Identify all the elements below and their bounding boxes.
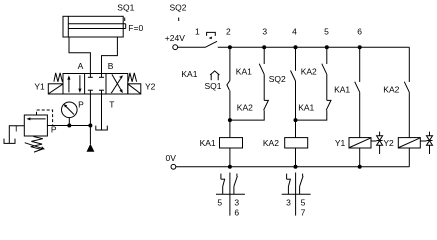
wire branch 2 upper <box>229 47 231 80</box>
contact table KA1 make glyph <box>234 174 238 195</box>
svg-text:6: 6 <box>357 27 362 37</box>
valve left position arrows <box>67 75 81 93</box>
wire P manifold <box>47 125 90 127</box>
svg-text:3: 3 <box>234 198 239 208</box>
relay coil KA1 <box>220 138 243 148</box>
svg-text:Y2: Y2 <box>383 138 394 148</box>
pressure relief valve body <box>24 115 47 136</box>
contact table KA1 bar <box>216 193 245 195</box>
svg-text:A: A <box>78 61 84 71</box>
svg-text:3: 3 <box>262 27 267 37</box>
svg-text:KA2: KA2 <box>237 103 253 113</box>
switch S1 blade (latching) <box>206 32 218 47</box>
svg-text:KA2: KA2 <box>263 138 279 148</box>
compressed air source <box>87 144 95 152</box>
wire branch 4 upper <box>295 47 297 71</box>
suppressor Z1 <box>371 132 383 154</box>
relay coil KA2 <box>285 138 308 148</box>
svg-text:KA1: KA1 <box>334 85 350 95</box>
svg-text:B: B <box>108 61 114 71</box>
wire branch 3 upper <box>263 47 265 64</box>
contact table KA2 make glyph <box>300 174 304 195</box>
wire relief valve to tank <box>9 126 24 144</box>
wire +24V rail left <box>178 46 206 48</box>
wire branch 6 upper <box>359 47 361 82</box>
svg-text:F=0: F=0 <box>128 23 143 33</box>
valve right return spring <box>128 73 137 82</box>
node 0V branch 2 <box>228 165 232 169</box>
svg-text:Y2: Y2 <box>145 81 156 91</box>
node branch2/branch3 join <box>228 118 232 122</box>
wire branch 5 middle <box>326 74 328 100</box>
wire 0V rail <box>176 166 409 168</box>
svg-text:T: T <box>109 99 114 109</box>
node P junction <box>88 124 92 128</box>
node branch 4 <box>294 45 298 49</box>
svg-text:5: 5 <box>324 27 329 37</box>
solenoid Y1 coil box <box>48 84 63 94</box>
svg-text:3: 3 <box>286 198 291 208</box>
node branch 6 <box>358 45 362 49</box>
svg-text:1: 1 <box>195 27 200 37</box>
cylinder piston <box>67 16 69 37</box>
wire branch 7 upper <box>408 47 410 82</box>
contact KA1 (make, branch 6) <box>355 82 360 93</box>
contact table KA1 centre line <box>229 173 231 216</box>
wire cylinder left port to valve A <box>69 37 90 74</box>
svg-text:KA1: KA1 <box>200 138 216 148</box>
contact SQ1 (make) <box>227 81 230 91</box>
wire cylinder right port to valve B <box>102 37 118 74</box>
wire branch 3 middle <box>263 74 265 100</box>
node gauge junction <box>67 124 71 128</box>
relief valve pilot line (dashed) <box>37 110 53 125</box>
svg-text:SQ2: SQ2 <box>269 74 286 84</box>
valve V1 body (5/3 way) <box>63 74 128 95</box>
contact KA2 (break, branch 3) <box>264 100 269 110</box>
pressure gauge <box>62 102 78 126</box>
svg-text:T: T <box>14 123 19 133</box>
node 0V branch 4 <box>294 165 298 169</box>
wire branch 5 lower <box>296 110 327 120</box>
tank T (relief) <box>4 139 15 144</box>
wire branch 7 lower <box>408 92 410 137</box>
wire branch 4 lower <box>295 81 297 138</box>
SQ1 position tick <box>124 18 126 22</box>
contact table KA2 bar <box>282 193 311 195</box>
svg-text:5: 5 <box>217 198 222 208</box>
svg-text:KA1: KA1 <box>298 103 314 113</box>
svg-text:KA2: KA2 <box>383 85 399 95</box>
SQ2 position tick <box>178 18 180 22</box>
svg-text:KA2: KA2 <box>301 66 317 76</box>
svg-text:P: P <box>51 125 57 135</box>
valve right position crossed arrows <box>111 74 123 93</box>
svg-text:SQ2: SQ2 <box>170 2 187 12</box>
terminal 0V <box>171 164 176 169</box>
contact KA2 (make, branch 5) <box>322 64 327 75</box>
node branch 3 <box>262 45 266 49</box>
svg-text:2: 2 <box>226 27 231 37</box>
node branch 5 <box>325 45 329 49</box>
svg-text:+24V: +24V <box>165 33 185 43</box>
svg-text:Y1: Y1 <box>335 138 346 148</box>
svg-text:KA1: KA1 <box>181 69 197 79</box>
svg-text:SQ1: SQ1 <box>117 2 134 12</box>
contact table KA2 break glyph <box>287 174 291 195</box>
wire Y2 to 0V <box>408 148 410 167</box>
wire Y1 to 0V <box>359 148 361 167</box>
solenoid Y2 (electrical) <box>398 138 420 148</box>
cylinder SQ1 body <box>63 16 123 37</box>
limit switch symbol SQ1 <box>210 71 219 80</box>
node 0V branch 6 <box>358 165 362 169</box>
terminal +24V <box>173 45 178 50</box>
contact table KA1 break glyph <box>221 174 225 195</box>
svg-text:7: 7 <box>301 207 306 217</box>
contact SQ2 (make, branch 4) <box>291 71 296 82</box>
svg-text:5: 5 <box>301 198 306 208</box>
wire coil KA2 to 0V <box>295 148 297 167</box>
wire branch 6 lower <box>359 92 361 137</box>
solenoid Y2 coil box <box>128 84 141 94</box>
exhaust tank T <box>96 126 108 130</box>
contact KA1 (break, branch 5) <box>326 100 331 110</box>
svg-text:KA1: KA1 <box>236 66 252 76</box>
valve centre position blocked ports <box>88 74 104 95</box>
relief valve spring (adjustable) <box>25 137 45 153</box>
wire branch 3 lower <box>230 110 264 120</box>
suppressor Z2 <box>420 132 432 154</box>
svg-text:6: 6 <box>234 207 239 217</box>
svg-text:Y1: Y1 <box>34 81 45 91</box>
svg-text:0V: 0V <box>166 153 177 163</box>
wire +24V rail <box>218 46 409 48</box>
wire valve T to exhaust <box>101 94 103 130</box>
wire branch 5 upper <box>326 47 328 64</box>
contact KA1 (make, branch 3) <box>259 64 264 75</box>
svg-text:P: P <box>78 99 84 109</box>
wire coil KA1 to 0V <box>229 148 231 167</box>
svg-text:4: 4 <box>292 27 297 37</box>
svg-text:SQ1: SQ1 <box>205 81 222 91</box>
solenoid Y1 (electrical) <box>349 138 371 148</box>
valve left return spring <box>54 73 63 82</box>
contact KA2 (make, branch 7) <box>404 82 409 93</box>
contact table KA2 centre line <box>295 173 297 216</box>
cylinder rod <box>68 24 125 29</box>
wire branch 2 lower <box>229 91 231 138</box>
node branch 2 <box>228 45 232 49</box>
wire valve P to source <box>89 94 91 144</box>
node branch4/branch5 join <box>294 118 298 122</box>
